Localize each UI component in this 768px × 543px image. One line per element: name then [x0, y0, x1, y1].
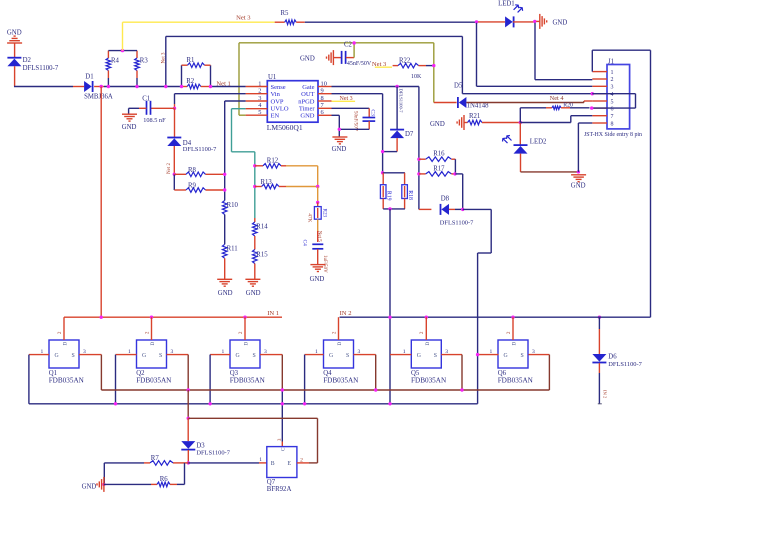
svg-text:R22: R22 — [399, 57, 411, 64]
pin 10 Gate wire — [318, 86, 419, 88]
svg-text:D: D — [63, 342, 69, 346]
svg-text:D8: D8 — [441, 196, 450, 203]
node source Q5 — [460, 388, 463, 391]
svg-text:SMBJ36A: SMBJ36A — [84, 94, 113, 101]
svg-text:R14: R14 — [256, 224, 268, 231]
svg-text:DFLS1100-7: DFLS1100-7 — [183, 146, 217, 153]
wire gate drive drop — [389, 209, 391, 404]
svg-text:R5: R5 — [281, 10, 290, 17]
svg-text:R23: R23 — [322, 209, 328, 218]
svg-text:Net 3: Net 3 — [372, 61, 387, 68]
svg-text:Vin: Vin — [271, 91, 281, 98]
resistor R20 — [520, 103, 589, 110]
node LED1 left — [475, 20, 478, 23]
wire Q1 gate — [29, 355, 49, 404]
transistor Q3 FDB035AN — [222, 331, 268, 385]
svg-text:S: S — [434, 353, 437, 359]
svg-text:D: D — [337, 342, 343, 346]
net label Net 1 — [216, 81, 230, 88]
svg-text:LED1: LED1 — [498, 0, 515, 7]
svg-text:G: G — [417, 353, 421, 359]
pin 1 stub U1 — [246, 86, 268, 88]
wire olive corner to D5 — [434, 102, 457, 104]
transistor Q5 FDB035AN — [403, 331, 449, 385]
svg-text:S: S — [159, 353, 162, 359]
node IN2-Q5 — [425, 316, 428, 319]
wire base node to Q7 — [188, 462, 266, 464]
wire main horizontal to U1 — [104, 86, 182, 88]
resistor R12 — [255, 158, 286, 168]
wire J1 pin8 down to GND — [578, 123, 592, 172]
resistor R17 — [419, 166, 456, 177]
wire D6 down — [598, 363, 600, 404]
wire right rail down — [650, 50, 652, 317]
svg-text:E: E — [288, 461, 292, 467]
node D3 top — [187, 417, 190, 420]
svg-text:S: S — [346, 353, 349, 359]
node OUT-D7 — [381, 150, 384, 153]
svg-text:R8: R8 — [188, 167, 197, 174]
node LED2/pin8 GND — [577, 170, 580, 173]
svg-text:3: 3 — [611, 85, 614, 91]
svg-text:D7: D7 — [405, 131, 414, 138]
wire D1 node to IN1 bus — [100, 87, 102, 318]
wire Q6 gate — [478, 354, 499, 356]
wire D7 to OUT line — [383, 138, 398, 152]
svg-text:G: G — [142, 353, 146, 359]
node C1 junction — [173, 107, 176, 110]
svg-text:FDB035AN: FDB035AN — [136, 377, 172, 385]
wire D6 riser — [598, 317, 600, 354]
wire Q7 emitter — [297, 462, 309, 464]
svg-text:D6: D6 — [608, 354, 617, 361]
wire Q1 source — [79, 355, 101, 390]
resistor R23 47K (box) — [307, 202, 328, 231]
svg-text:IN 2: IN 2 — [603, 390, 608, 399]
svg-text:D3: D3 — [196, 442, 205, 449]
svg-text:Net 2: Net 2 — [167, 163, 172, 174]
svg-text:R9: R9 — [188, 183, 197, 190]
svg-text:Timer: Timer — [299, 106, 315, 113]
resistor R4 — [106, 51, 119, 87]
wire R10 to R11 — [224, 215, 226, 245]
net label Net 4 — [550, 95, 565, 102]
svg-text:1: 1 — [611, 70, 614, 76]
node gate drive drop — [388, 402, 391, 405]
svg-text:4: 4 — [611, 92, 614, 98]
svg-text:108.5 nF: 108.5 nF — [143, 117, 166, 124]
net stub label (rotated, below D6) — [598, 390, 608, 404]
svg-text:GND: GND — [332, 146, 347, 153]
svg-text:R16: R16 — [433, 151, 445, 158]
diode D2 DFLS1100-7 — [7, 57, 58, 72]
node R13 right — [316, 185, 319, 188]
bus MOSFET gates (navy) — [29, 403, 478, 405]
resistor R5 — [275, 10, 305, 25]
connector J1 body JST-HX — [584, 58, 642, 138]
svg-text:C1: C1 — [142, 96, 150, 103]
svg-text:D: D — [244, 342, 250, 346]
wire R16 right down — [454, 159, 456, 174]
svg-text:DFLS1100-7: DFLS1100-7 — [196, 450, 230, 457]
wire Q2 source — [167, 355, 189, 390]
node gate Q4 — [303, 402, 306, 405]
wire J1 pin4-pin6 loop — [592, 94, 635, 108]
pin 4 UVLO teal wire — [232, 109, 268, 218]
node above R23 — [316, 201, 319, 204]
transistor Q6 FDB035AN — [490, 331, 536, 385]
resistor R16 — [419, 151, 456, 162]
wire olive down to R22/D5 — [433, 43, 435, 103]
power symbol GND (C1) — [122, 114, 137, 131]
wire J1 pin7 to R21 node — [520, 116, 592, 123]
wire node to GND — [536, 20, 540, 22]
wire node to LED1 — [478, 21, 505, 23]
wire to J1 pin 4 — [462, 93, 592, 95]
svg-text:DFLS1100-7: DFLS1100-7 — [608, 361, 642, 368]
node R17 right — [453, 172, 456, 175]
wire Vin down to D4 — [174, 108, 176, 137]
wire Q3 drain — [244, 317, 246, 340]
diode D3 DFLS1100-7 — [181, 441, 230, 456]
svg-text:D1: D1 — [85, 74, 93, 81]
svg-text:C4: C4 — [302, 240, 308, 247]
svg-text:GND: GND — [430, 121, 445, 128]
svg-text:Net 4: Net 4 — [550, 95, 565, 102]
transistor Q2 FDB035AN — [128, 331, 174, 385]
resistor R14 — [253, 218, 269, 250]
node Q6 gate — [476, 353, 479, 356]
transistor Q1 FDB035AN — [41, 331, 87, 385]
wire D1 to node — [94, 86, 104, 88]
svg-text:R12: R12 — [267, 158, 279, 165]
svg-text:47K: 47K — [307, 213, 313, 222]
node R21 right — [519, 121, 522, 124]
bus IN 2 (navy) — [340, 310, 651, 317]
wire Q6 source — [529, 355, 550, 390]
wire Q4 gate — [305, 355, 324, 404]
resistor R22 10K — [393, 57, 434, 80]
svg-text:Gate: Gate — [302, 84, 314, 91]
wire LED2 to GND run — [521, 154, 579, 172]
power symbol GND (R21) — [430, 115, 464, 130]
svg-text:J1: J1 — [608, 58, 614, 65]
svg-text:G: G — [236, 353, 240, 359]
node IN1-D1 wire — [100, 316, 103, 319]
node GND-R6 — [102, 483, 105, 486]
wire rail down to J1 pin4 row — [461, 36, 463, 93]
resistor R2 (in main line) — [182, 78, 246, 89]
resistor R21 — [464, 113, 520, 125]
wire D7 branch down — [397, 87, 403, 130]
wire Q4 drain — [338, 317, 340, 340]
wire R11 to GND — [224, 258, 226, 279]
svg-text:8: 8 — [611, 121, 614, 127]
node R12 left — [253, 164, 256, 167]
node C2 on olive rail — [352, 41, 355, 44]
wire D5 anode to J1 pin5 — [466, 101, 592, 103]
resistor R15 — [253, 250, 269, 280]
wire J1 pin1 loop to right rail — [592, 50, 650, 71]
wire gate rail down right — [418, 87, 420, 210]
resistor R13 — [255, 179, 286, 189]
svg-text:Net 3: Net 3 — [162, 52, 167, 63]
svg-text:C2: C2 — [344, 42, 353, 49]
node gate Q2 — [114, 402, 117, 405]
svg-text:BFR92A: BFR92A — [267, 486, 292, 493]
node J1 pin4 — [591, 92, 594, 95]
node source Q2 — [187, 388, 190, 391]
svg-text:FDB035AN: FDB035AN — [230, 377, 266, 385]
svg-text:R10: R10 — [227, 202, 239, 209]
net label Net 2 (rotated) — [167, 163, 172, 174]
wire D2 to main node — [14, 66, 16, 86]
svg-text:LED2: LED2 — [530, 139, 547, 146]
svg-text:S: S — [72, 353, 75, 359]
svg-text:C3: C3 — [370, 109, 376, 116]
wire riser main to top rail — [165, 36, 167, 86]
power symbol GND (C4) — [310, 265, 326, 283]
wire Q2 gate — [116, 355, 137, 404]
bus IN 1 (red) — [64, 310, 282, 317]
node R8 right — [223, 173, 226, 176]
node R1 left — [180, 85, 183, 88]
resistor R11 — [222, 244, 237, 258]
wire D3 row to Q7 emitter loop — [188, 418, 317, 463]
net label Net 5 (rotated) — [317, 231, 322, 242]
pin stubs J1 — [592, 72, 607, 123]
op-amp U1 LM5060Q1 body — [258, 74, 327, 132]
svg-text:R17: R17 — [433, 166, 445, 173]
resistor R8 — [174, 167, 224, 177]
svg-text:Net 3: Net 3 — [236, 14, 251, 21]
capacitor C4 1uF/50V — [302, 231, 328, 273]
node R9 right — [223, 188, 226, 191]
wire R6 right riser — [184, 463, 186, 485]
svg-text:R20: R20 — [563, 103, 573, 109]
node gate-drive mid — [388, 207, 391, 210]
diode D4 DFLS1100-7 — [167, 138, 217, 153]
svg-text:IN 1: IN 1 — [267, 310, 279, 317]
wire R18R19 top rail — [383, 172, 405, 174]
svg-text:R6: R6 — [160, 476, 169, 483]
svg-text:OVP: OVP — [271, 98, 284, 105]
resistor R1 (parallel loop) — [182, 57, 211, 87]
wire R12 to orange riser — [286, 166, 318, 187]
wire R17 node to D8 drop — [455, 174, 462, 210]
wire Q3 source / Q7 collector line — [260, 355, 282, 447]
wire Q6 drain — [512, 317, 514, 340]
svg-text:DFLS1100-7: DFLS1100-7 — [399, 89, 404, 114]
resistor R9 — [174, 183, 224, 193]
resistor R6 — [104, 476, 185, 487]
capacitor C3 50nF/50V — [353, 109, 376, 131]
node R3 bottom — [135, 85, 138, 88]
power symbol GND (R15) — [245, 279, 260, 297]
wire LED1 to GND node — [513, 21, 534, 23]
resistor R10 — [222, 201, 238, 215]
svg-text:2: 2 — [611, 77, 614, 83]
svg-text:GND: GND — [82, 484, 97, 491]
node IN1-Q2 — [150, 316, 153, 319]
wire main horizontal left segment — [14, 86, 84, 88]
svg-text:DFLS1100-7: DFLS1100-7 — [440, 220, 474, 227]
node source Q3 — [281, 388, 284, 391]
wire top rail — [166, 35, 463, 37]
power symbol GND (R11) — [217, 279, 232, 297]
svg-text:C: C — [280, 447, 286, 451]
net label Net 3 (near C2) — [372, 61, 392, 68]
power symbol GND (LED1) — [540, 14, 568, 29]
svg-text:R2: R2 — [186, 78, 195, 85]
net label Net 3 (top) — [236, 14, 251, 21]
diode D7 — [390, 130, 414, 139]
svg-text:GND: GND — [218, 290, 233, 297]
wire Q3 gate — [210, 355, 230, 404]
wire J1 pin2 from LED1 right — [535, 23, 592, 80]
svg-text:R21: R21 — [469, 113, 480, 120]
svg-text:6: 6 — [611, 106, 614, 112]
svg-text:FDB035AN: FDB035AN — [323, 377, 359, 385]
wire R5 to LED1 node — [305, 21, 477, 23]
svg-text:GND: GND — [571, 183, 586, 190]
svg-text:LM5060Q1: LM5060Q1 — [267, 123, 303, 132]
svg-text:D: D — [425, 342, 431, 346]
svg-text:R15: R15 — [256, 252, 268, 259]
svg-text:45nF/50V: 45nF/50V — [347, 61, 372, 67]
svg-text:50nF/50V: 50nF/50V — [353, 111, 358, 132]
svg-text:GND: GND — [122, 124, 137, 131]
svg-text:S: S — [253, 353, 256, 359]
node gate Q3 — [208, 402, 211, 405]
svg-text:D: D — [512, 342, 518, 346]
node LED1 right — [533, 20, 536, 23]
wire Q5 drain — [425, 317, 427, 340]
node J1 pin6 — [590, 106, 593, 109]
resistor R19 (box) — [380, 173, 391, 209]
wire R13 to orange riser — [286, 186, 318, 188]
wire GND to D2 — [14, 43, 16, 58]
node R4 bottom — [107, 85, 110, 88]
bus MOSFET sources (maroon) — [101, 389, 549, 391]
svg-text:G: G — [55, 353, 59, 359]
diode D5 1N4148 — [454, 83, 489, 110]
diode D1 SMBJ36A — [84, 74, 113, 101]
node IN1-Q3 — [243, 316, 246, 319]
transistor Q7 BFR92A — [259, 438, 303, 493]
LED LED2 — [503, 136, 548, 154]
power symbol GND (top left) — [7, 30, 22, 44]
svg-text:EN: EN — [271, 113, 280, 120]
power symbol GND (Q7) — [82, 477, 104, 492]
svg-text:R13: R13 — [261, 179, 273, 186]
node R13 left — [253, 185, 256, 188]
diode D8 DFLS1100-7 — [419, 196, 474, 227]
svg-text:D: D — [150, 342, 156, 346]
svg-text:IN 2: IN 2 — [340, 310, 352, 317]
wire Q2 drain — [151, 317, 153, 340]
svg-text:UVLO: UVLO — [271, 106, 289, 113]
node U1 GND — [338, 128, 341, 131]
wire J1 pin3 from LED1 left — [477, 23, 593, 87]
node main-D1 — [100, 85, 103, 88]
node IN2-Q6 — [511, 316, 514, 319]
svg-text:GND: GND — [300, 56, 315, 63]
svg-text:G: G — [504, 353, 508, 359]
svg-text:R1: R1 — [187, 57, 195, 64]
node IN2-D6 — [598, 316, 601, 319]
wire D3 riser — [187, 418, 189, 441]
node base-R7-D3 — [187, 461, 190, 464]
pin 2 Vin wire — [175, 94, 268, 109]
wire olive EN rail riser — [238, 43, 240, 115]
wire Net 3 yellow top run — [123, 21, 275, 23]
wire D3 to base node — [187, 450, 189, 463]
svg-text:1N4148: 1N4148 — [467, 103, 490, 110]
wire source bus drop to D3 row — [187, 390, 189, 418]
pin 8 nPGD stub Net 3 — [318, 96, 355, 102]
node R22 on olive wire — [432, 64, 435, 67]
svg-text:7: 7 — [611, 114, 614, 120]
wire D4 to R8/R9 rail — [173, 146, 175, 174]
pin 7 Timer wire — [318, 108, 369, 117]
svg-text:D2: D2 — [23, 57, 32, 64]
svg-text:10K: 10K — [411, 74, 422, 80]
wire rail R8 to R9 — [173, 174, 175, 190]
svg-text:GND: GND — [246, 290, 261, 297]
svg-text:1: 1 — [259, 457, 262, 463]
svg-text:R11: R11 — [227, 246, 238, 253]
node D8 right — [461, 208, 464, 211]
wire Net 3 yellow riser — [122, 22, 124, 50]
svg-text:Sense: Sense — [271, 84, 286, 91]
node R1 right — [209, 85, 212, 88]
node R8 left — [173, 173, 176, 176]
resistor R3 — [135, 51, 149, 87]
resistor R7 — [104, 455, 188, 465]
node riser at main wire — [164, 85, 167, 88]
wire Q5 gate — [390, 354, 411, 356]
svg-text:R3: R3 — [140, 58, 149, 65]
svg-text:FDB035AN: FDB035AN — [498, 377, 534, 385]
node IN2-gatedrive — [388, 316, 391, 319]
pin 5 EN olive wire — [239, 114, 267, 116]
svg-text:B: B — [271, 461, 275, 467]
svg-text:R19: R19 — [386, 191, 392, 201]
wire orange down to R23 — [317, 187, 319, 203]
svg-text:nPGD: nPGD — [298, 98, 315, 105]
LED LED1 — [498, 0, 522, 27]
wire Q4 source — [354, 355, 376, 390]
power symbol GND (LED2/J1) — [571, 175, 586, 190]
wire C3 to GND node — [339, 128, 369, 130]
svg-text:Net 3: Net 3 — [340, 96, 353, 102]
svg-text:R18: R18 — [407, 190, 413, 200]
svg-text:JST-HX Side entry 8 pin: JST-HX Side entry 8 pin — [584, 132, 642, 138]
net label Net 3 (riser, rotated) — [162, 52, 167, 63]
svg-text:R4: R4 — [111, 58, 120, 65]
svg-text:GND: GND — [300, 113, 314, 120]
svg-text:5: 5 — [611, 99, 614, 105]
wire LED2 riser — [519, 108, 521, 145]
node R16 left — [417, 158, 420, 161]
wire olive top rail — [239, 42, 434, 44]
node R18R19 top rail — [381, 171, 384, 174]
node yellow Net3 tap — [121, 49, 124, 52]
resistor R18 (box) — [402, 173, 413, 209]
svg-text:D5: D5 — [454, 83, 463, 90]
svg-text:GND: GND — [310, 276, 325, 283]
